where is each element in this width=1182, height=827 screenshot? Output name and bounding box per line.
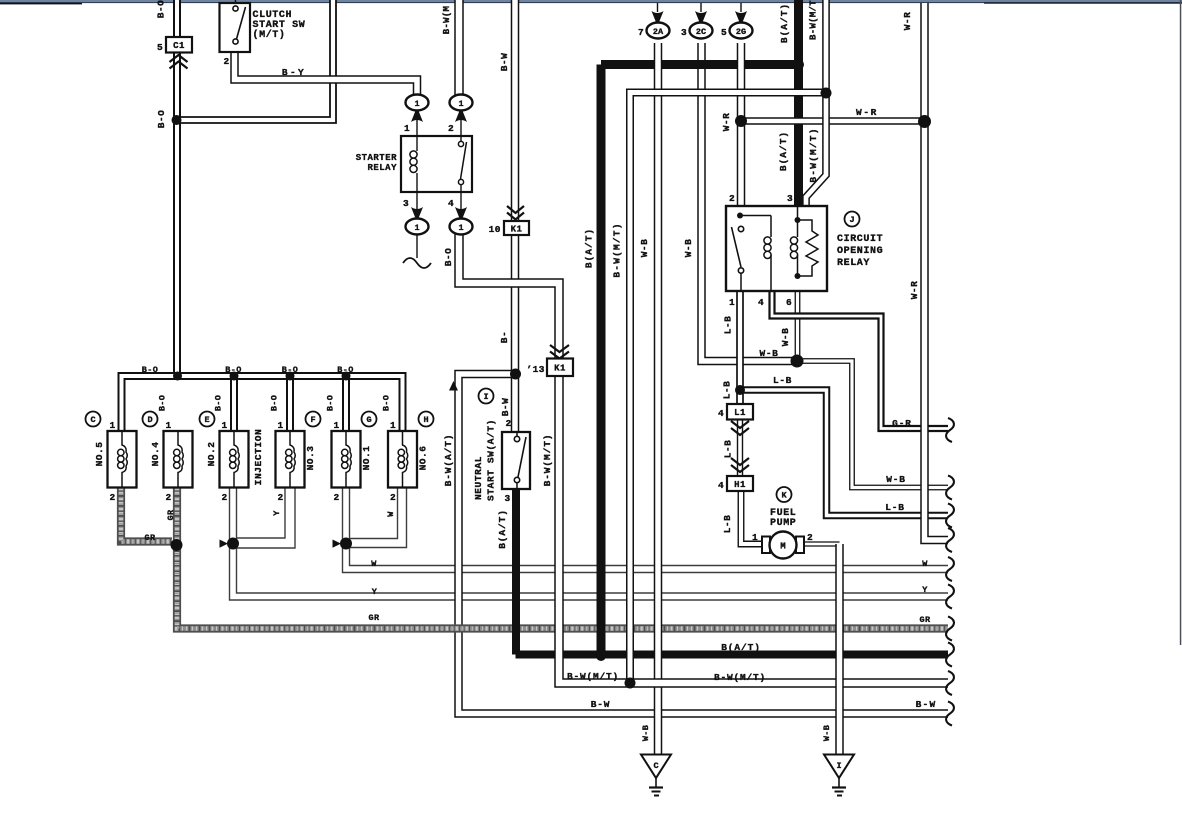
ground I bbox=[824, 755, 854, 779]
continuation mark B-W bbox=[946, 702, 954, 726]
svg-text:1: 1 bbox=[277, 420, 283, 431]
arrow into node B bbox=[333, 540, 342, 548]
injector NO.1 (G) bbox=[332, 431, 361, 488]
svg-text:M: M bbox=[780, 542, 785, 552]
svg-text:NEUTRAL: NEUTRAL bbox=[473, 456, 484, 500]
svg-text:B-O: B-O bbox=[158, 395, 168, 411]
node B(A/T) thick junction top bbox=[794, 60, 804, 70]
svg-text:E: E bbox=[204, 415, 209, 425]
svg-text:NO.3: NO.3 bbox=[305, 446, 316, 471]
svg-text:1: 1 bbox=[390, 420, 396, 431]
svg-text:C: C bbox=[653, 761, 658, 771]
svg-text:G-R: G-R bbox=[892, 418, 912, 429]
svg-text:2: 2 bbox=[807, 532, 813, 543]
connector 2C bbox=[700, 3, 702, 12]
injector NO.3 (F) bbox=[276, 431, 305, 488]
svg-text:B-O: B-O bbox=[142, 365, 159, 375]
wire B(A/T) thick top horizontal bbox=[601, 60, 799, 69]
window top bar bbox=[0, 0, 1182, 3]
continuation mark L-B bbox=[946, 504, 954, 528]
svg-text:10: 10 bbox=[489, 224, 501, 235]
svg-text:W: W bbox=[386, 511, 396, 517]
svg-text:Y: Y bbox=[372, 587, 378, 597]
svg-text:W: W bbox=[371, 559, 377, 569]
ground C bbox=[641, 755, 671, 779]
svg-text:W-R: W-R bbox=[909, 281, 920, 300]
wire B(A/T) thick vertical into relay pin3 bbox=[794, 0, 803, 206]
relay coil (parallel with resistor) bbox=[797, 206, 799, 237]
svg-text:B-O: B-O bbox=[326, 395, 336, 411]
svg-text:RELAY: RELAY bbox=[837, 258, 870, 269]
svg-text:W-B: W-B bbox=[822, 725, 832, 741]
wire loop from node B-O junction up to top edge bbox=[177, 0, 333, 120]
continuation mark Y bbox=[946, 585, 954, 609]
node B injector W junction bbox=[340, 538, 352, 550]
svg-text:J: J bbox=[849, 215, 854, 225]
svg-text:B-O: B-O bbox=[337, 365, 354, 375]
svg-text:OPENING: OPENING bbox=[837, 246, 883, 257]
svg-text:B-W(A/T): B-W(A/T) bbox=[443, 434, 454, 487]
svg-text:1: 1 bbox=[458, 99, 463, 109]
svg-text:B(A/T): B(A/T) bbox=[721, 642, 761, 653]
node B(A/T) bottom junction bbox=[596, 651, 606, 661]
right window edge bbox=[1180, 0, 1182, 645]
node L-B junction bbox=[735, 385, 745, 395]
svg-text:W-B: W-B bbox=[641, 725, 651, 741]
svg-text:1: 1 bbox=[109, 420, 115, 431]
svg-text:3: 3 bbox=[681, 27, 687, 38]
connector 2A bbox=[657, 3, 659, 12]
svg-text:I: I bbox=[483, 392, 488, 402]
svg-text:W-B: W-B bbox=[886, 474, 906, 485]
wire W-B 2C connector down to W-B junction bbox=[702, 43, 796, 361]
svg-text:GR: GR bbox=[368, 613, 380, 623]
starter relay pin ovals and arrows bbox=[416, 110, 418, 136]
svg-text:L-B: L-B bbox=[773, 375, 792, 386]
svg-text:1: 1 bbox=[414, 223, 419, 233]
fuel pump K bbox=[777, 487, 792, 502]
wire B-W from top through 10 K1 to neutral start switch bbox=[511, 0, 520, 432]
starter relay bbox=[401, 136, 472, 192]
svg-text:L-B: L-B bbox=[722, 381, 733, 400]
continuation mark W bbox=[946, 557, 954, 581]
wire B-O main vertical from top through C1 to injector bus bbox=[173, 0, 181, 376]
svg-text:L-B: L-B bbox=[723, 440, 734, 459]
wire W-B circuit opening relay pin6 down to junction bbox=[795, 291, 801, 361]
node W-B junction bbox=[791, 355, 804, 368]
svg-text:B-O: B-O bbox=[443, 248, 454, 267]
wire L-B between L1 and H1 bbox=[737, 420, 743, 477]
svg-text:H1: H1 bbox=[734, 480, 746, 490]
connector L1 pin4 bbox=[727, 404, 753, 420]
wire L-B H1 to fuel pump pin1 bbox=[741, 491, 762, 544]
svg-text:GR: GR bbox=[166, 509, 176, 520]
wire W-B junction right then down, exits right bbox=[797, 361, 948, 488]
svg-text:B-O: B-O bbox=[156, 0, 167, 18]
svg-text:1: 1 bbox=[414, 99, 419, 109]
svg-text:L-B: L-B bbox=[723, 316, 734, 335]
wire fuel pump pin2 to right bbox=[804, 541, 840, 546]
wire Y injector NO.2 pin2 through node A, exits right bbox=[233, 487, 948, 597]
wire B(A/T) thick bottom horizontal exits right bbox=[516, 651, 949, 659]
svg-text:B-Y: B-Y bbox=[282, 67, 306, 78]
svg-text:4: 4 bbox=[758, 297, 764, 308]
svg-text:B-W(M/T): B-W(M/T) bbox=[542, 434, 553, 487]
svg-text:NO.1: NO.1 bbox=[361, 446, 372, 471]
svg-text:1: 1 bbox=[729, 297, 735, 308]
injector NO.4 (D) bbox=[164, 431, 193, 488]
injector NO.2 (E) bbox=[220, 431, 249, 488]
svg-text:B-W(M/T): B-W(M/T) bbox=[567, 671, 619, 682]
svg-text:2: 2 bbox=[165, 492, 171, 503]
wire B-W(M/T) from top into starter relay pin2 oval bbox=[454, 0, 464, 95]
svg-text:B-W(M/T): B-W(M/T) bbox=[808, 127, 819, 182]
wire GR injector NO.4 pin2 through node, exits right bbox=[177, 487, 948, 629]
svg-text:1: 1 bbox=[404, 123, 410, 134]
svg-text:L-B: L-B bbox=[722, 515, 733, 534]
wire B-W(M/T) from 13 K1 down, exits right bottom bbox=[559, 500, 948, 683]
svg-text:B-W: B-W bbox=[591, 699, 611, 710]
wire 2G connector down to relay pin2 bbox=[737, 43, 746, 206]
connector 2G bbox=[740, 3, 742, 12]
svg-text:Y: Y bbox=[922, 585, 928, 595]
svg-text:7: 7 bbox=[638, 27, 644, 38]
node A injector Y junction bbox=[227, 538, 239, 550]
node B-W(M/T) junction bbox=[821, 88, 832, 99]
wire B-O bus drop to NO.2 bbox=[230, 376, 238, 431]
svg-text:F: F bbox=[310, 415, 315, 425]
svg-text:3: 3 bbox=[403, 198, 409, 209]
wire B-Y clutch start switch to starter relay pin1 bbox=[235, 52, 418, 95]
svg-text:1: 1 bbox=[221, 420, 227, 431]
wire B-W(A/T) from junction down, becomes B-W exits right bbox=[459, 374, 949, 714]
svg-text:B-O: B-O bbox=[156, 110, 167, 129]
node B-W junction at neutral start switch bbox=[510, 369, 521, 380]
wire B(A/T) thick left vertical bbox=[597, 65, 606, 655]
svg-text:B-O: B-O bbox=[225, 365, 242, 375]
svg-text:B(A/T): B(A/T) bbox=[497, 509, 508, 549]
wire W-B fuel pump pin2 down to ground I bbox=[835, 544, 844, 754]
relay resistor bbox=[798, 220, 819, 276]
wire B-W(M/T) branch left then down to bottom junction bbox=[630, 93, 826, 684]
svg-text:L1: L1 bbox=[734, 408, 746, 418]
circuit opening relay bbox=[726, 206, 827, 291]
relay name J bbox=[845, 212, 860, 227]
svg-text:C1: C1 bbox=[173, 41, 185, 51]
wire W-R horizontal bbox=[741, 117, 925, 125]
svg-text:B(A/T): B(A/T) bbox=[779, 3, 790, 43]
svg-text:H: H bbox=[423, 415, 428, 425]
svg-text:W-R: W-R bbox=[856, 107, 878, 118]
svg-text:5: 5 bbox=[157, 42, 163, 53]
neutral start switch bbox=[502, 432, 530, 489]
svg-text:B-W(M: B-W(M bbox=[442, 6, 452, 35]
svg-text:W: W bbox=[922, 559, 928, 569]
node B-O bus at NO.1 bbox=[342, 372, 351, 381]
wire W injector NO.1 pin2 through node B, exits right bbox=[346, 487, 948, 569]
node B-O bus at NO.2 bbox=[230, 372, 239, 381]
svg-text:W-B: W-B bbox=[780, 328, 791, 347]
clutch start switch bbox=[235, 0, 237, 3]
svg-text:Y: Y bbox=[272, 510, 282, 516]
continuation mark W-B bbox=[946, 476, 954, 500]
wire W injector NO.6 pin2 to node B bbox=[346, 487, 402, 543]
svg-text:START SW(A/T): START SW(A/T) bbox=[486, 419, 497, 501]
node B-O bus at NO.3 bbox=[286, 372, 295, 381]
arrow into node A bbox=[220, 540, 229, 548]
svg-text:INJECTION: INJECTION bbox=[253, 429, 264, 486]
svg-text:C: C bbox=[90, 415, 95, 425]
wire Y injector NO.3 pin2 to node A bbox=[233, 487, 290, 543]
svg-text:K: K bbox=[781, 491, 787, 501]
svg-text:4: 4 bbox=[718, 480, 724, 491]
wire W-R vertical right side, exits right bbox=[925, 3, 949, 540]
svg-text:2: 2 bbox=[277, 492, 283, 503]
svg-text:NO.5: NO.5 bbox=[94, 442, 105, 467]
svg-text:W-B: W-B bbox=[639, 239, 650, 258]
svg-text:D: D bbox=[147, 415, 152, 425]
arrow up on B-W(A/T) wire bbox=[449, 381, 458, 391]
wire B(A/T) thick from neutral start switch pin3 bbox=[512, 489, 520, 655]
svg-text:B-W: B-W bbox=[499, 53, 510, 72]
svg-text:(M/T): (M/T) bbox=[253, 29, 286, 41]
svg-text:B-: B- bbox=[499, 331, 510, 343]
svg-text:2: 2 bbox=[390, 492, 396, 503]
svg-text:4: 4 bbox=[718, 408, 724, 419]
connector 13 K1 bbox=[550, 345, 569, 352]
continuation mark GR bbox=[946, 617, 954, 641]
svg-text:B-W(M/T): B-W(M/T) bbox=[612, 222, 623, 277]
svg-text:G: G bbox=[366, 415, 371, 425]
continuation mark G-R bbox=[946, 418, 954, 442]
svg-text:NO.6: NO.6 bbox=[418, 446, 429, 471]
svg-text:B(A/T): B(A/T) bbox=[778, 131, 789, 171]
svg-text:1: 1 bbox=[333, 420, 339, 431]
node B-O junction left bbox=[172, 115, 182, 125]
svg-text:2: 2 bbox=[223, 56, 229, 67]
injector NO.6 (H) bbox=[388, 431, 417, 488]
svg-text:2: 2 bbox=[505, 418, 511, 429]
wire GR injector NO.5 pin2 to GR node bbox=[121, 487, 172, 542]
to starter motor squiggle bbox=[416, 234, 418, 258]
svg-text:W-B: W-B bbox=[683, 239, 694, 258]
svg-text:STARTER: STARTER bbox=[356, 153, 397, 163]
svg-text:B-W(M/T): B-W(M/T) bbox=[714, 672, 766, 683]
svg-text:K1: K1 bbox=[554, 364, 566, 374]
svg-text:1: 1 bbox=[458, 223, 463, 233]
connector C1 pin5 bbox=[166, 37, 192, 53]
svg-text:B-O: B-O bbox=[214, 395, 224, 411]
svg-text:2: 2 bbox=[221, 492, 227, 503]
svg-text:4: 4 bbox=[448, 198, 454, 209]
wire B-O bus drop to NO.1 bbox=[342, 376, 350, 431]
svg-text:B-W: B-W bbox=[500, 398, 511, 417]
svg-text:W-B: W-B bbox=[760, 348, 779, 359]
svg-text:L-B: L-B bbox=[885, 502, 905, 513]
svg-text:NO.2: NO.2 bbox=[206, 442, 217, 467]
svg-text:2: 2 bbox=[448, 123, 454, 134]
svg-text:B-O: B-O bbox=[270, 395, 280, 411]
svg-text:2A: 2A bbox=[653, 27, 664, 37]
continuation mark B(A/T) bbox=[946, 643, 954, 667]
node B-O bus feed bbox=[173, 372, 182, 381]
node W-R junction right bbox=[918, 115, 931, 128]
svg-text:2: 2 bbox=[333, 492, 339, 503]
svg-text:2: 2 bbox=[109, 492, 115, 503]
wire L-B relay pin1 down to L1 bbox=[736, 291, 744, 404]
svg-text:3: 3 bbox=[787, 193, 793, 204]
wire G-R relay pin4 exits right bbox=[772, 291, 948, 429]
svg-text:PUMP: PUMP bbox=[770, 518, 796, 529]
svg-text:3: 3 bbox=[504, 493, 510, 504]
injector NO.5 (C) bbox=[108, 431, 137, 488]
svg-text:GR: GR bbox=[144, 533, 156, 543]
svg-text:2G: 2G bbox=[736, 27, 746, 37]
svg-text:B(A/T): B(A/T) bbox=[584, 228, 595, 268]
svg-text:I: I bbox=[836, 761, 841, 771]
wire B-O injector bus bbox=[122, 376, 403, 431]
node GR junction bbox=[171, 539, 183, 551]
svg-text:GR: GR bbox=[919, 615, 931, 625]
svg-text:B-W: B-W bbox=[916, 699, 937, 710]
continuation mark B-W(M/T) bbox=[946, 671, 954, 695]
svg-text:1: 1 bbox=[165, 420, 171, 431]
wire B-O starter relay pin4 to 13 K1 connector bbox=[459, 234, 559, 500]
continuation mark W-R bbox=[946, 528, 954, 552]
wire B-O bus drop to NO.3 bbox=[286, 376, 294, 431]
svg-text:5: 5 bbox=[721, 27, 727, 38]
svg-text:B-O: B-O bbox=[382, 395, 392, 411]
svg-text:’13: ’13 bbox=[526, 364, 545, 375]
connector 10 K1 bbox=[507, 206, 524, 213]
svg-text:2: 2 bbox=[729, 193, 735, 204]
node B-W(M/T) bottom junction bbox=[625, 678, 636, 689]
svg-text:NO.4: NO.4 bbox=[150, 442, 161, 467]
svg-text:W-R: W-R bbox=[902, 12, 913, 31]
svg-text:CIRCUIT: CIRCUIT bbox=[837, 234, 883, 245]
svg-text:2C: 2C bbox=[696, 27, 706, 37]
svg-text:B-W(M/T: B-W(M/T bbox=[809, 0, 819, 40]
wire B-W(M/T) from top to junction then diagonal into relay pin3 bbox=[822, 0, 830, 93]
svg-text:W-R: W-R bbox=[721, 113, 732, 132]
wire W-B 2A connector down to ground C bbox=[654, 43, 663, 754]
svg-text:K1: K1 bbox=[511, 224, 523, 234]
connector H1 pin4 bbox=[731, 458, 749, 465]
node W-R junction at 2G wire bbox=[735, 115, 747, 127]
svg-text:6: 6 bbox=[786, 297, 792, 308]
relay coil (contact side) bbox=[770, 216, 772, 238]
wire L-B branch right then down, exits right bbox=[740, 390, 948, 516]
svg-text:B-O: B-O bbox=[282, 365, 299, 375]
svg-text:RELAY: RELAY bbox=[367, 163, 397, 173]
svg-text:1: 1 bbox=[752, 532, 758, 543]
